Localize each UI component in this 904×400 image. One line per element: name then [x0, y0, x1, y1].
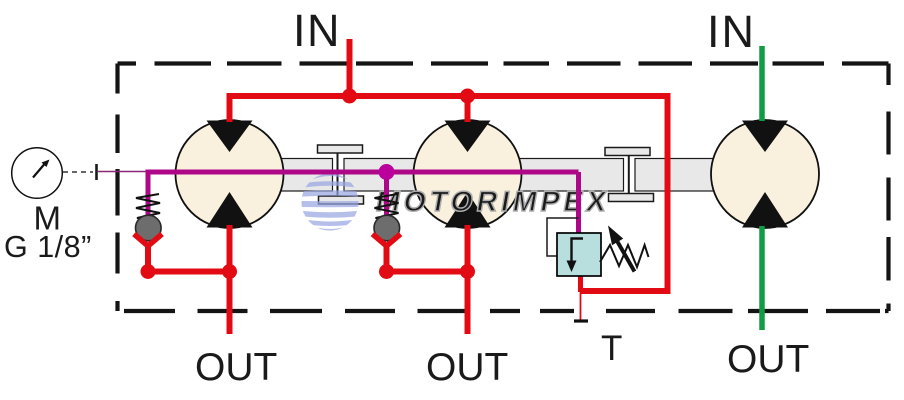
- check valve 1 ball: [136, 215, 162, 241]
- svg-text:OUT: OUT: [426, 346, 508, 389]
- check valve 2 ball: [374, 215, 400, 241]
- svg-text:G 1/8”: G 1/8”: [4, 230, 92, 264]
- junction node above motor D2: [460, 89, 475, 104]
- junction node below check valve 1: [141, 264, 156, 279]
- red relief valve outlet stub: [578, 276, 583, 292]
- svg-text:OUT: OUT: [195, 346, 277, 389]
- coupling 2 upper plate: [605, 148, 650, 156]
- motor D3 upper flow triangle: [742, 121, 788, 153]
- junction node below motor D1: [222, 264, 237, 279]
- red outlet line motor D2: [465, 225, 471, 334]
- relief valve adjustment arrow: [608, 226, 635, 272]
- gauge sense line thin: [98, 171, 146, 173]
- magenta drop to check valve 1: [146, 172, 151, 218]
- coupling 2 centre line: [628, 155, 630, 194]
- red drain line to tank: [580, 292, 582, 320]
- gauge test point tick: [95, 164, 98, 180]
- gauge dashed connector: [63, 171, 93, 173]
- junction node at IN riser: [342, 89, 357, 104]
- junction node below motor D2: [460, 264, 475, 279]
- magenta pilot gallery: [146, 170, 579, 175]
- motor D3 lower flow triangle: [742, 192, 788, 228]
- check valve 1 spring: [136, 194, 160, 221]
- relief valve body: [557, 233, 601, 276]
- motor D2 lower flow triangle: [445, 192, 491, 228]
- shaft segment between D1 and D2: [183, 159, 333, 192]
- green outlet line motor D3: [759, 226, 765, 330]
- motor D2 circle: [414, 120, 522, 228]
- relief valve flow arrow: [567, 239, 584, 273]
- magenta drop to check valve 2: [384, 172, 389, 218]
- shaft segment into D3: [635, 159, 785, 192]
- watermark globe logo: [300, 174, 360, 231]
- relief valve pilot loop: [547, 218, 579, 256]
- motor D1 circle: [176, 120, 284, 228]
- pressure gauge M: [12, 148, 63, 199]
- enclosure dashed boundary: [118, 64, 889, 312]
- red branch to motor D2 inlet: [465, 96, 471, 122]
- motor D1 upper flow triangle: [207, 121, 253, 153]
- coupling 1 centre line: [337, 153, 339, 198]
- coupling 1 upper plate: [318, 145, 363, 153]
- red link check valve 1 to outlet: [148, 246, 230, 272]
- red supply manifold: [230, 96, 668, 291]
- shaft segment between D2 and D3: [344, 159, 624, 192]
- svg-text:IN: IN: [707, 6, 756, 57]
- relief valve spring: [600, 245, 649, 267]
- magenta drop to relief valve: [576, 172, 581, 235]
- red outlet line motor D1: [227, 225, 233, 334]
- motor D2 upper flow triangle: [445, 121, 491, 153]
- check valve 2 seat: [373, 234, 401, 246]
- motor D3 circle: [711, 120, 819, 228]
- magenta junction node: [379, 164, 395, 180]
- red link check valve 2 to outlet: [387, 246, 468, 272]
- svg-text:T: T: [601, 329, 622, 368]
- motor D1 lower flow triangle: [207, 192, 253, 228]
- svg-text:IN: IN: [293, 5, 341, 56]
- green inlet line motor D3: [759, 46, 765, 121]
- svg-text:OUT: OUT: [727, 338, 809, 381]
- red inlet riser from IN label: [347, 39, 353, 96]
- junction node below check valve 2: [379, 264, 394, 279]
- check valve 2 spring: [375, 194, 399, 221]
- check valve 1 seat: [134, 234, 162, 246]
- coupling 2 lower plate: [609, 194, 654, 202]
- tank symbol: [574, 319, 588, 322]
- coupling 1 lower plate: [319, 196, 364, 204]
